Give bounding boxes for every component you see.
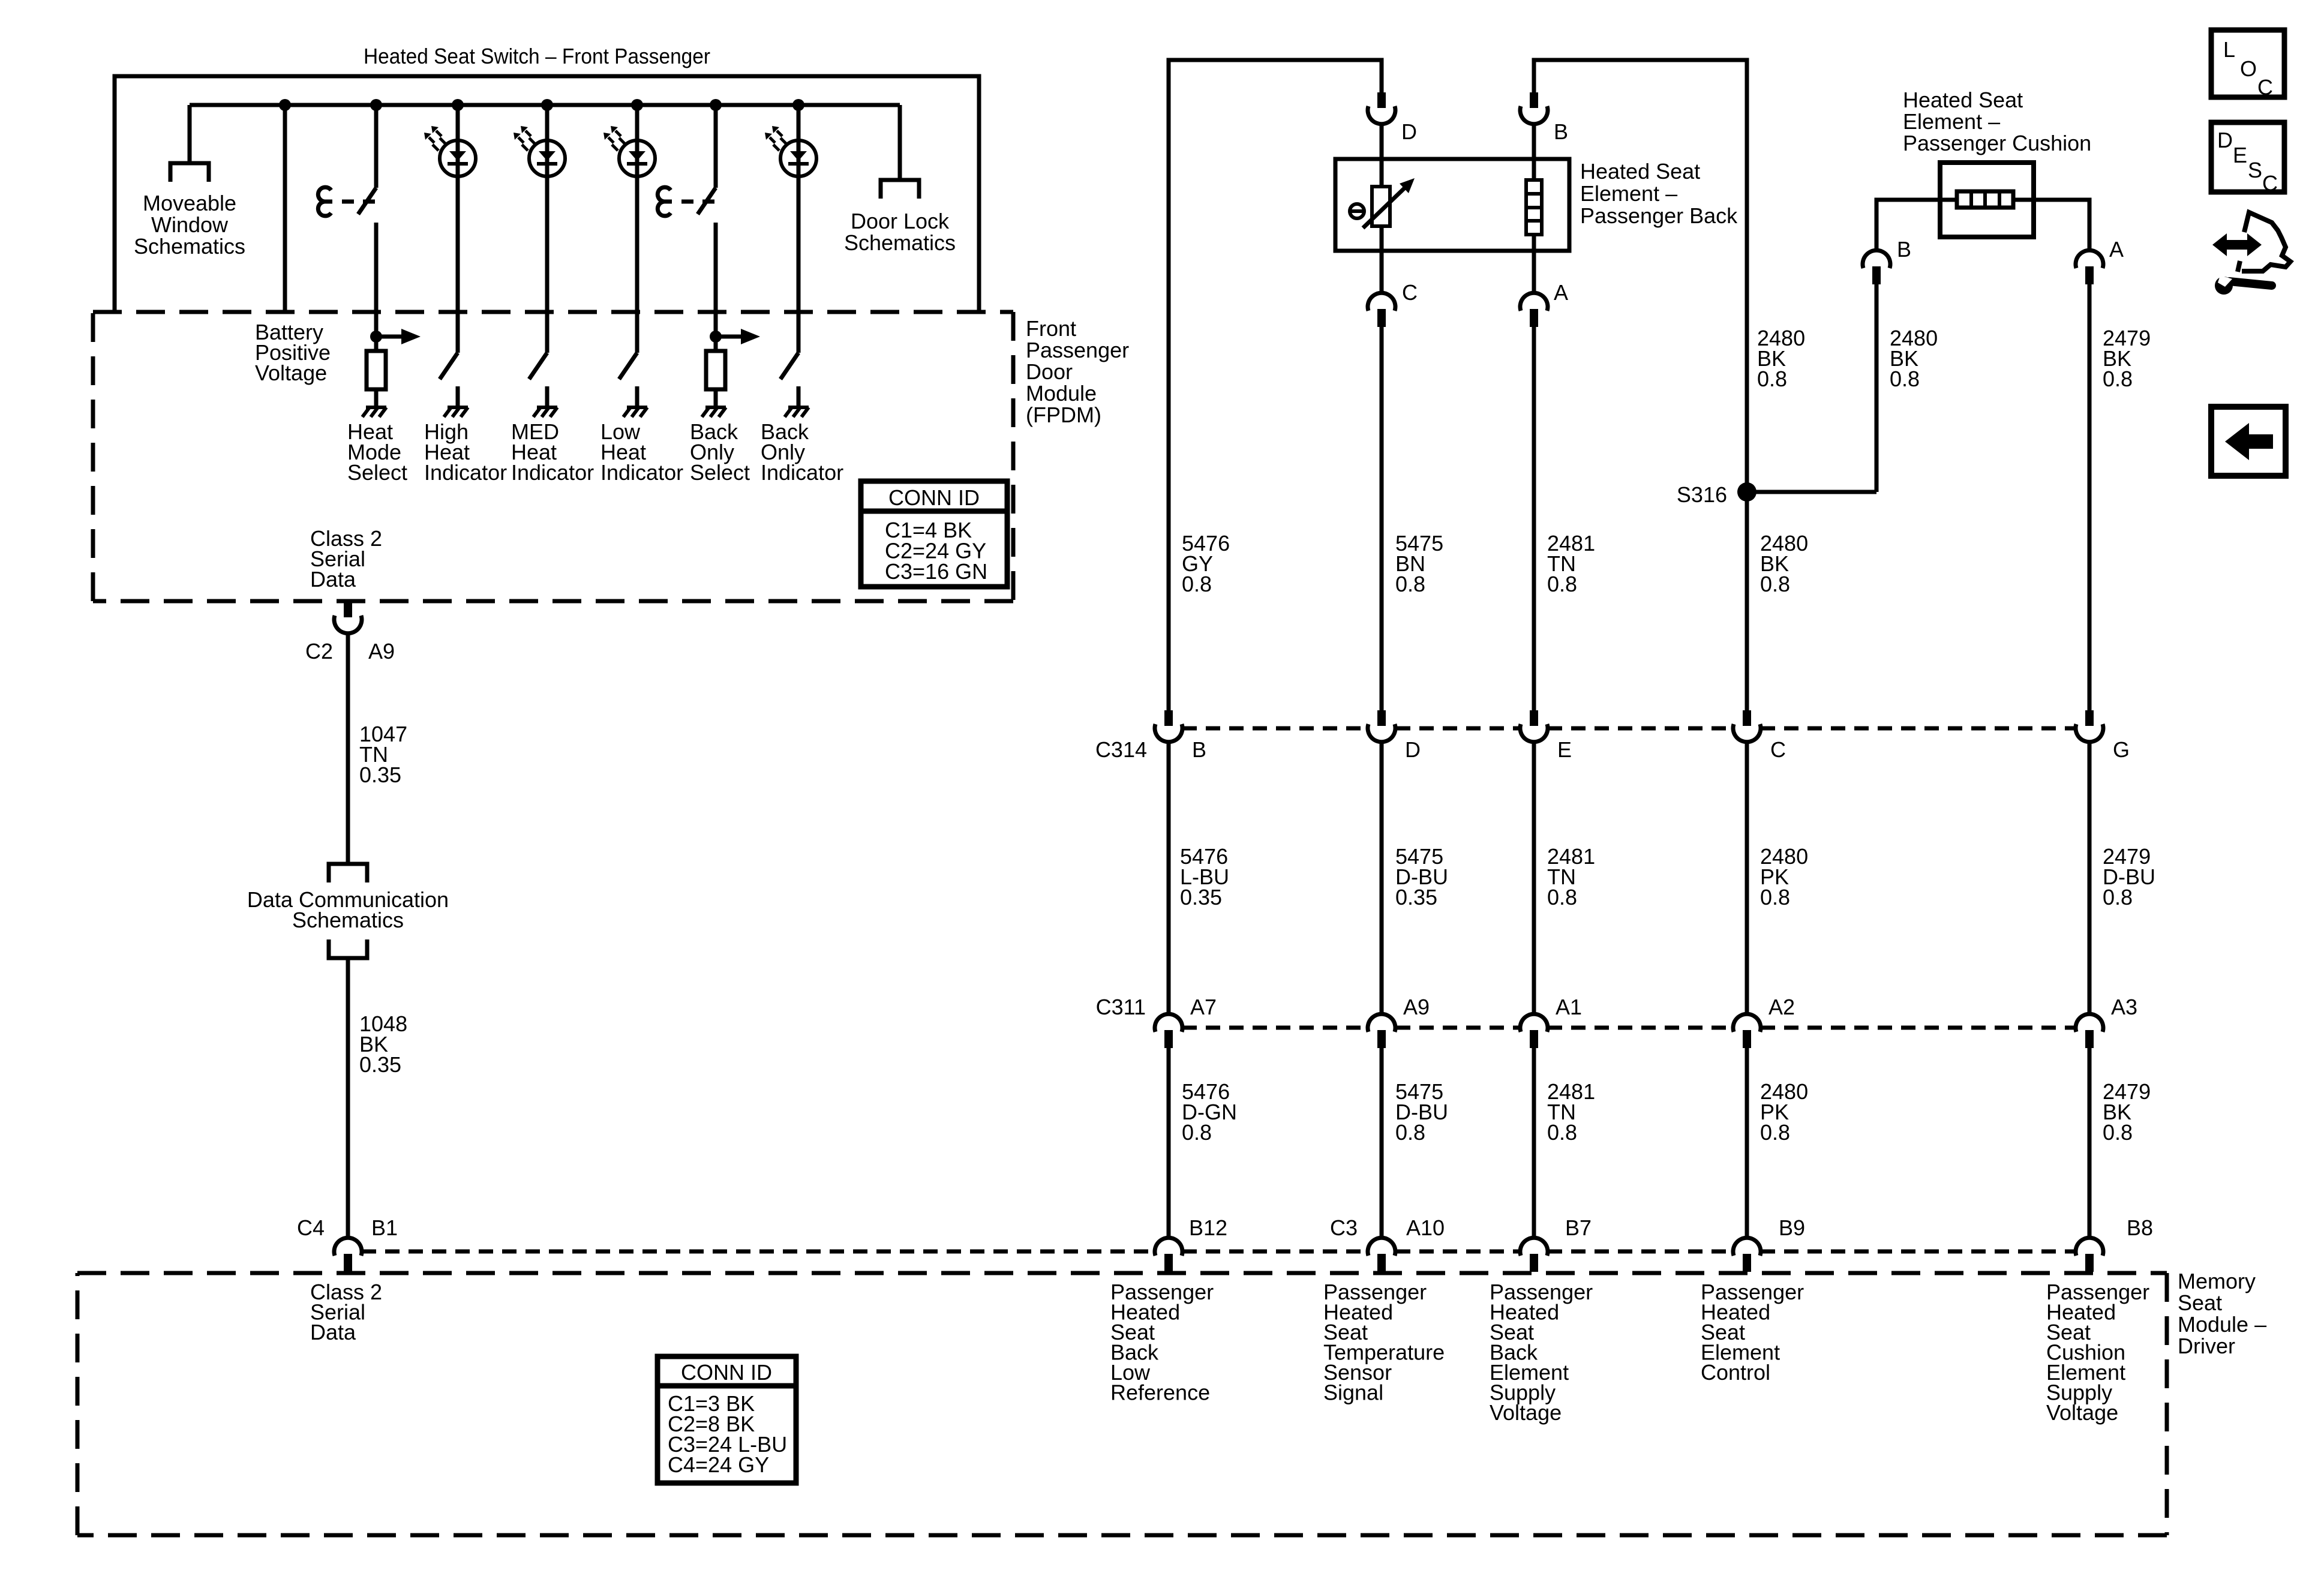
- svg-text:C311: C311: [1096, 995, 1146, 1019]
- connector MSM pin B12: [1164, 1254, 1173, 1272]
- switch Low Heat Indicator: [619, 353, 637, 379]
- svg-text:Door Lock: Door Lock: [851, 209, 950, 233]
- wire 2480 PK 0.8 lower: [1745, 1046, 1749, 1238]
- wire cushion element left: [1876, 200, 1957, 250]
- wire 5475 D-BU 0.35 mid: [1380, 742, 1384, 1014]
- svg-text:Voltage: Voltage: [255, 361, 327, 385]
- node bus junction x1331: [792, 99, 804, 111]
- wire 2480 PK 0.8 mid: [1745, 742, 1749, 1014]
- node bus junction x763: [452, 99, 464, 111]
- off-page Data Communication Schematics lower bracket: [329, 939, 367, 958]
- svg-text:B7: B7: [1565, 1215, 1592, 1240]
- svg-text:0.8: 0.8: [1395, 1120, 1425, 1145]
- icon DESC box: [2211, 122, 2284, 192]
- svg-text:C: C: [1770, 737, 1786, 762]
- node heat mode junction: [370, 331, 382, 343]
- wire back only select lower: [714, 223, 718, 351]
- component Heated Seat Element - Passenger Back box: [1335, 159, 1569, 251]
- svg-text:D: D: [1405, 737, 1421, 762]
- icon back arrow box: [2211, 407, 2286, 476]
- svg-text:Schematics: Schematics: [844, 230, 956, 255]
- linkage heat mode select: [318, 187, 331, 216]
- wire back only select upper: [714, 105, 718, 188]
- svg-text:Data: Data: [310, 567, 356, 592]
- splice S316: [1737, 482, 1756, 502]
- resistor back only select: [706, 351, 725, 389]
- connector MSM pin B9: [1743, 1254, 1751, 1272]
- svg-text:A9: A9: [1403, 995, 1430, 1019]
- svg-text:Module: Module: [1026, 381, 1097, 406]
- svg-text:Passenger Back: Passenger Back: [1580, 203, 1738, 228]
- wire heat mode resistor to ground: [374, 389, 379, 407]
- svg-text:0.35: 0.35: [359, 763, 401, 787]
- svg-text:A9: A9: [368, 639, 395, 664]
- svg-text:A10: A10: [1406, 1215, 1445, 1240]
- off-page connector Moveable Window Schematics: [170, 163, 209, 182]
- wire temp sensor loop top: [1169, 60, 1382, 710]
- wire pin D to thermistor: [1380, 124, 1384, 187]
- svg-text:A7: A7: [1190, 995, 1217, 1019]
- svg-text:0.35: 0.35: [1395, 885, 1437, 909]
- wire 1047 TN 0.35: [346, 634, 350, 864]
- svg-text:S316: S316: [1677, 482, 1727, 507]
- heating element back: [1532, 124, 1536, 180]
- node bus junction x1193: [710, 99, 722, 111]
- wire Back Only Indicator stub: [797, 386, 801, 407]
- svg-text:D: D: [2217, 128, 2233, 152]
- svg-text:Memory: Memory: [2178, 1269, 2256, 1293]
- switch MED Heat Indicator: [529, 353, 547, 379]
- svg-text:B8: B8: [2127, 1215, 2153, 1240]
- table CONN ID MSM: [657, 1356, 796, 1483]
- svg-text:0.35: 0.35: [1180, 885, 1222, 909]
- svg-text:B: B: [1554, 119, 1568, 144]
- svg-text:O: O: [2240, 56, 2257, 81]
- svg-text:C3=16 GN: C3=16 GN: [885, 559, 987, 584]
- svg-text:L: L: [2223, 37, 2235, 62]
- svg-text:0.8: 0.8: [1547, 1120, 1577, 1145]
- connector C4 pin B1: [344, 1254, 352, 1272]
- svg-text:G: G: [2113, 737, 2130, 762]
- wire 2480 BK 0.8 to C314: [1745, 492, 1749, 710]
- svg-text:Signal: Signal: [1323, 1380, 1383, 1405]
- svg-text:Schematics: Schematics: [292, 908, 404, 932]
- svg-text:C: C: [1402, 280, 1418, 305]
- connector back element pin A: [1530, 309, 1538, 327]
- svg-text:CONN ID: CONN ID: [888, 485, 980, 510]
- wire 5476 L-BU 0.35 mid: [1167, 742, 1171, 1014]
- svg-text:Voltage: Voltage: [1490, 1400, 1562, 1425]
- svg-text:0.8: 0.8: [1182, 572, 1212, 596]
- ground High Heat Indicator: [448, 406, 468, 409]
- svg-text:C314: C314: [1095, 737, 1147, 762]
- ground Low Heat Indicator: [627, 406, 647, 409]
- connector row memory seat module: [362, 1250, 1155, 1254]
- connector cushion pin B: [1872, 266, 1881, 284]
- heating element cushion: [1957, 191, 2013, 208]
- wire door lock drop: [898, 105, 902, 180]
- wire High Heat Indicator stub: [456, 386, 460, 407]
- connector C311 pin A2: [1743, 1030, 1751, 1048]
- svg-text:C: C: [2257, 75, 2273, 100]
- svg-text:Control: Control: [1701, 1360, 1770, 1385]
- svg-text:A1: A1: [1556, 995, 1582, 1019]
- svg-text:0.8: 0.8: [1395, 572, 1425, 596]
- svg-text:E: E: [1557, 737, 1572, 762]
- svg-text:B12: B12: [1189, 1215, 1227, 1240]
- wire element supply loop top: [1534, 60, 1747, 492]
- wire 2481 TN 0.8 lower: [1532, 1046, 1536, 1238]
- ground MED Heat Indicator: [537, 406, 557, 409]
- node bus junction x912: [541, 99, 553, 111]
- svg-text:Indicator: Indicator: [761, 460, 843, 485]
- linkage back only select: [657, 187, 671, 216]
- table CONN ID FPDM: [861, 481, 1007, 587]
- off-page Data Communication Schematics upper bracket: [329, 864, 367, 882]
- module FPDM dashed box: [93, 310, 1013, 314]
- wire MED Heat Indicator: [545, 105, 550, 353]
- svg-text:C2: C2: [305, 639, 333, 664]
- svg-text:Door: Door: [1026, 359, 1073, 384]
- wire battery positive voltage: [283, 105, 287, 312]
- wire 2480 BK 0.8 cushion: [1875, 282, 1879, 492]
- wire 5475 BN 0.8: [1380, 325, 1384, 710]
- svg-text:Voltage: Voltage: [2046, 1400, 2118, 1425]
- svg-text:0.8: 0.8: [1757, 367, 1787, 391]
- svg-text:A: A: [2109, 237, 2124, 262]
- svg-text:Seat: Seat: [2178, 1290, 2222, 1315]
- off-page connector Door Lock Schematics: [881, 180, 919, 199]
- svg-text:Heated Seat: Heated Seat: [1903, 88, 2023, 112]
- connector C311 pin A9: [1377, 1030, 1386, 1048]
- wire 2481 TN 0.8 upper: [1532, 325, 1536, 710]
- node bus junction x627: [370, 99, 382, 111]
- node bus junction x1062: [631, 99, 643, 111]
- svg-text:Element –: Element –: [1903, 109, 2000, 134]
- svg-text:C4=24 GY: C4=24 GY: [668, 1452, 769, 1477]
- connector C311 pin A1: [1530, 1030, 1538, 1048]
- connector C2 pin A9: [344, 602, 352, 617]
- svg-text:Data: Data: [310, 1320, 356, 1344]
- svg-text:B: B: [1192, 737, 1206, 762]
- svg-text:A: A: [1554, 280, 1568, 305]
- svg-text:S: S: [2248, 158, 2262, 182]
- svg-text:B: B: [1897, 237, 1911, 262]
- switch heat mode select: [358, 188, 376, 214]
- svg-text:Indicator: Indicator: [424, 460, 507, 485]
- wire 2479 D-BU 0.8 mid: [2088, 742, 2092, 1014]
- svg-text:Passenger Cushion: Passenger Cushion: [1903, 131, 2091, 155]
- svg-text:D: D: [1401, 119, 1417, 144]
- arrow heat mode signal: [376, 335, 403, 339]
- component Heated Seat Element - Passenger Cushion box: [1940, 163, 2034, 237]
- svg-text:Moveable: Moveable: [143, 191, 236, 215]
- connector MSM pin A10: [1377, 1254, 1386, 1272]
- wire back only resistor to ground: [714, 389, 718, 407]
- connector MSM pin B7: [1530, 1254, 1538, 1272]
- connector C311 pin A3: [2085, 1030, 2094, 1048]
- icon LOC box: [2211, 30, 2284, 97]
- svg-text:0.8: 0.8: [2103, 885, 2133, 909]
- svg-text:Select: Select: [690, 460, 750, 485]
- icon replace-part arrow and wrench: [2212, 233, 2262, 256]
- ground back only select: [705, 406, 726, 409]
- LED Back Only Indicator: [780, 140, 816, 176]
- svg-text:Indicator: Indicator: [511, 460, 594, 485]
- svg-text:0.8: 0.8: [1182, 1120, 1212, 1145]
- switch back only select: [698, 188, 716, 214]
- LED High Heat Indicator: [440, 140, 476, 176]
- svg-text:Front: Front: [1026, 316, 1076, 341]
- svg-text:Reference: Reference: [1110, 1380, 1210, 1405]
- svg-text:0.8: 0.8: [1760, 885, 1790, 909]
- svg-text:0.8: 0.8: [2103, 367, 2133, 391]
- svg-text:B1: B1: [371, 1215, 398, 1240]
- svg-text:Schematics: Schematics: [134, 234, 245, 259]
- connector C314 pin G: [2085, 710, 2094, 726]
- wire heat mode select upper: [374, 105, 379, 188]
- wire 5476 D-GN 0.8 lower: [1167, 1046, 1171, 1238]
- wire heat mode select lower: [374, 223, 379, 351]
- svg-text:Passenger: Passenger: [1026, 338, 1129, 362]
- wire High Heat Indicator: [456, 105, 460, 353]
- wire MED Heat Indicator stub: [545, 386, 550, 407]
- svg-text:CONN ID: CONN ID: [681, 1360, 772, 1385]
- svg-text:A2: A2: [1768, 995, 1795, 1019]
- svg-text:Heated Seat Switch – Front Pas: Heated Seat Switch – Front Passenger: [364, 44, 710, 68]
- wire thermistor to pin C: [1380, 226, 1384, 293]
- wire 2479 BK 0.8 lower: [2088, 1046, 2092, 1238]
- connector C314 pin C: [1743, 710, 1751, 726]
- node bus junction x475: [279, 99, 291, 111]
- wire 2481 TN 0.8 mid: [1532, 742, 1536, 1014]
- svg-text:0.8: 0.8: [1760, 1120, 1790, 1145]
- connector C311 pin A7: [1164, 1030, 1173, 1048]
- svg-text:0.8: 0.8: [1890, 367, 1920, 391]
- svg-text:Window: Window: [151, 212, 229, 237]
- wire S316 tie: [1747, 490, 1876, 494]
- connector C314 pin D: [1377, 710, 1386, 726]
- wire Back Only Indicator: [797, 105, 801, 353]
- svg-text:0.8: 0.8: [1547, 885, 1577, 909]
- svg-text:A3: A3: [2111, 995, 2137, 1019]
- svg-text:(FPDM): (FPDM): [1026, 403, 1101, 427]
- connector back element pin D: [1377, 92, 1386, 108]
- node back only junction: [710, 331, 722, 343]
- svg-text:Driver: Driver: [2178, 1334, 2235, 1358]
- connector C314 pin B: [1164, 710, 1173, 726]
- wire moveable window drop: [188, 105, 192, 163]
- connector back element pin B: [1530, 92, 1538, 108]
- thermistor temperature sensor: [1372, 187, 1390, 226]
- LED Low Heat Indicator: [619, 140, 655, 176]
- connector MSM pin B8: [2085, 1254, 2094, 1272]
- arrow back only signal: [716, 335, 742, 339]
- heated seat switch box outline: [115, 76, 979, 312]
- svg-text:0.8: 0.8: [2103, 1120, 2133, 1145]
- svg-text:C3: C3: [1330, 1215, 1358, 1240]
- svg-text:Indicator: Indicator: [600, 460, 683, 485]
- svg-text:E: E: [2233, 143, 2247, 167]
- module Memory Seat Module dashed box: [77, 1271, 2167, 1275]
- wire 1048 BK 0.35: [346, 958, 350, 1238]
- svg-text:C: C: [2262, 171, 2278, 196]
- svg-text:Module –: Module –: [2178, 1312, 2266, 1337]
- wire 2479 BK 0.8 upper: [2088, 282, 2092, 710]
- wire bus: [190, 103, 900, 107]
- LED MED Heat Indicator: [529, 140, 565, 176]
- wire 5475 D-BU 0.8 lower: [1380, 1046, 1384, 1238]
- wire cushion element right: [2013, 200, 2089, 250]
- svg-text:0.8: 0.8: [1547, 572, 1577, 596]
- wire Low Heat Indicator: [635, 105, 639, 353]
- ground heat mode select: [366, 406, 386, 409]
- svg-text:0.35: 0.35: [359, 1052, 401, 1077]
- wire Low Heat Indicator stub: [635, 386, 639, 407]
- connector cushion pin A: [2085, 266, 2094, 284]
- svg-text:Select: Select: [347, 460, 407, 485]
- svg-text:Element –: Element –: [1580, 181, 1677, 206]
- svg-text:B9: B9: [1779, 1215, 1805, 1240]
- ground Back Only Indicator: [788, 406, 809, 409]
- connector C314 pin E: [1530, 710, 1538, 726]
- switch High Heat Indicator: [440, 353, 458, 379]
- svg-text:0.8: 0.8: [1760, 572, 1790, 596]
- svg-text:C4: C4: [297, 1215, 325, 1240]
- switch Back Only Indicator: [780, 353, 798, 379]
- svg-text:Heated Seat: Heated Seat: [1580, 159, 1700, 184]
- resistor heat mode select: [367, 351, 386, 389]
- connector back element pin C: [1377, 309, 1386, 327]
